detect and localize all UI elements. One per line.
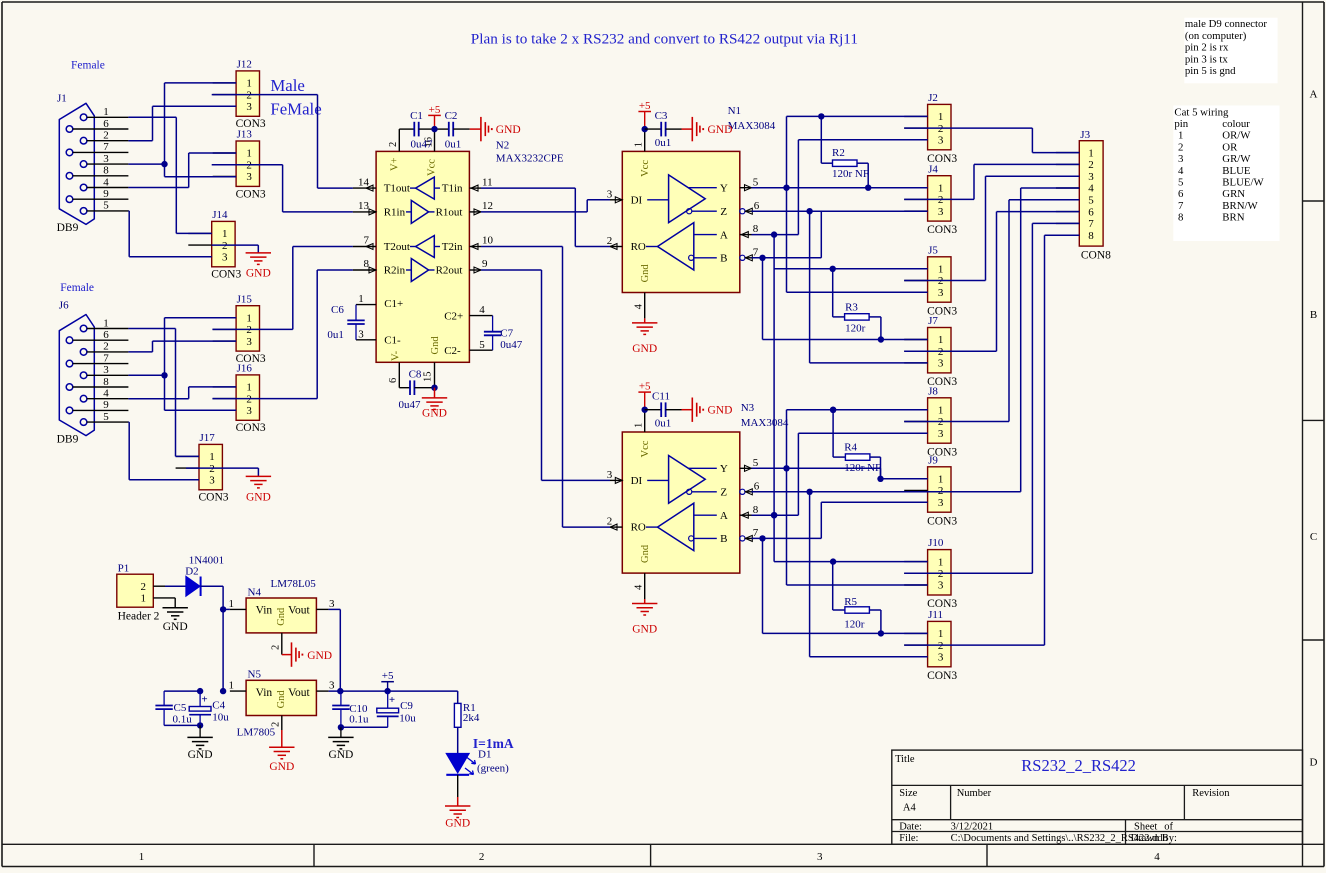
svg-text:10u: 10u — [399, 712, 416, 724]
svg-text:1: 1 — [246, 312, 252, 324]
svg-text:14: 14 — [358, 176, 370, 188]
svg-text:3: 3 — [938, 135, 944, 147]
svg-text:N1: N1 — [728, 105, 741, 117]
svg-text:Vout: Vout — [288, 604, 310, 616]
connector J12 CON3 — [213, 59, 266, 131]
wire J1.5 to J14.3 — [128, 211, 211, 257]
svg-text:J6: J6 — [59, 300, 69, 312]
IC N5 LM7805 — [237, 669, 317, 739]
svg-text:C8: C8 — [409, 369, 422, 381]
svg-text:1: 1 — [246, 78, 252, 90]
svg-text:C7: C7 — [500, 328, 513, 340]
svg-text:Gnd: Gnd — [640, 544, 651, 563]
capacitor C11 — [645, 391, 682, 430]
svg-text:J7: J7 — [928, 315, 938, 327]
svg-text:GND: GND — [496, 124, 521, 136]
svg-text:OR: OR — [1222, 141, 1238, 153]
svg-text:1: 1 — [938, 111, 944, 123]
capacitor C7 — [469, 304, 522, 351]
svg-text:3: 3 — [938, 287, 944, 299]
N4 pin 2 ground — [271, 633, 333, 667]
svg-text:CON3: CON3 — [199, 492, 229, 504]
LED D1 — [446, 749, 509, 775]
connector J14 CON3 — [188, 209, 241, 281]
capacitor C8 — [399, 369, 435, 411]
N5 pin 1 — [229, 680, 247, 692]
svg-text:3: 3 — [817, 851, 823, 863]
svg-text:3: 3 — [607, 469, 613, 481]
svg-text:R2in: R2in — [384, 265, 406, 277]
svg-text:of: of — [1164, 822, 1173, 833]
label MAX3084 (N1) — [728, 120, 776, 132]
resistor R2 — [818, 113, 869, 187]
svg-text:3: 3 — [246, 171, 252, 183]
svg-text:+: + — [201, 694, 207, 706]
svg-text:9: 9 — [482, 258, 488, 270]
N4 pin 1 — [223, 598, 246, 610]
wire net B3 to J11.1 — [763, 538, 928, 633]
svg-text:Plan is to take 2 x RS232 and: Plan is to take 2 x RS232 and convert to… — [471, 31, 858, 48]
svg-text:3: 3 — [938, 580, 944, 592]
svg-text:5: 5 — [479, 339, 485, 351]
wire J6.1 to J17.1 — [128, 329, 199, 457]
svg-text:D2: D2 — [185, 566, 198, 578]
svg-text:9: 9 — [103, 188, 109, 200]
wire J2.2 to J3.1 — [904, 128, 1079, 153]
svg-text:3: 3 — [1088, 171, 1094, 183]
svg-text:8: 8 — [753, 504, 759, 516]
svg-text:GND: GND — [708, 124, 733, 136]
svg-text:2: 2 — [271, 645, 282, 650]
N3 pins — [607, 457, 760, 542]
svg-text:CON3: CON3 — [211, 269, 241, 281]
wire net B1 loop to Z1 line — [820, 211, 822, 258]
svg-text:T2in: T2in — [442, 241, 463, 253]
svg-text:7: 7 — [103, 141, 109, 153]
svg-text:N2: N2 — [496, 140, 509, 152]
wire J11.2 to J3.8 — [904, 235, 1079, 645]
N3 Gnd pin 4 — [634, 573, 645, 599]
svg-text:GND: GND — [632, 343, 657, 355]
N2 buffer R1 — [406, 200, 435, 223]
wire J8.2 to J3.5 — [904, 200, 1079, 422]
svg-text:MAX3084: MAX3084 — [728, 120, 776, 132]
svg-text:DI: DI — [631, 194, 643, 206]
svg-text:Revision: Revision — [1192, 788, 1230, 799]
svg-text:3: 3 — [329, 598, 335, 610]
svg-text:1: 1 — [229, 598, 235, 610]
wire net A1 to J2.3 — [798, 140, 927, 235]
capacitor C3 — [645, 110, 682, 149]
ground below N1 — [632, 318, 657, 355]
wire net B1 to J7.1 — [763, 258, 928, 343]
svg-text:GND: GND — [708, 405, 733, 417]
N2 right pins 11 12 10 9 — [469, 176, 493, 273]
label N1 — [728, 105, 741, 117]
svg-text:J11: J11 — [928, 609, 943, 621]
N5 pin 3 wire — [316, 680, 457, 695]
svg-text:C2-: C2- — [444, 345, 461, 357]
svg-text:GND: GND — [632, 624, 657, 636]
note male D9 connector — [1184, 18, 1277, 84]
svg-text:2: 2 — [1178, 141, 1183, 153]
svg-text:(on computer): (on computer) — [1185, 30, 1247, 42]
capacitor C10 — [332, 691, 388, 730]
svg-text:T1out: T1out — [384, 183, 410, 195]
svg-text:J9: J9 — [928, 454, 938, 466]
svg-text:0u47: 0u47 — [399, 399, 422, 411]
svg-text:A: A — [720, 229, 728, 241]
svg-text:Date:: Date: — [899, 822, 922, 833]
wire J1.4 to J13.1 — [128, 153, 236, 188]
svg-text:4: 4 — [103, 176, 109, 188]
note Cat 5 wiring table — [1173, 106, 1279, 242]
capacitor C2 — [435, 110, 470, 151]
svg-text:T1in: T1in — [442, 183, 463, 195]
svg-text:D1: D1 — [478, 749, 491, 761]
wire N1.Z to J4.3 — [752, 208, 928, 214]
svg-text:8: 8 — [1088, 230, 1094, 242]
svg-text:DB9: DB9 — [57, 434, 79, 446]
svg-text:V+: V+ — [390, 157, 401, 171]
svg-text:pin 2 is rx: pin 2 is rx — [1185, 42, 1229, 54]
title block texts — [895, 754, 1230, 844]
svg-text:3/12/2021: 3/12/2021 — [951, 822, 994, 833]
N4 pin 3 wire to +5 rail — [316, 598, 340, 691]
svg-text:R2: R2 — [832, 147, 845, 159]
svg-text:Gnd: Gnd — [276, 607, 287, 626]
wire J1.1 to J14.1 — [128, 117, 211, 233]
N1 pins — [607, 176, 760, 260]
N3 pin names — [631, 463, 728, 545]
ground below N3 — [632, 599, 657, 636]
svg-text:3: 3 — [246, 336, 252, 348]
capacitor C1 — [399, 110, 434, 151]
wire N3.Y line to J9.1 — [752, 465, 928, 479]
connector J13 CON3 — [213, 129, 266, 201]
svg-text:C4: C4 — [212, 699, 225, 711]
ground after C3 — [682, 117, 733, 141]
svg-text:3: 3 — [103, 364, 109, 376]
N1 power pin names — [640, 160, 651, 283]
wire N2 R2out to N3 DI — [481, 270, 610, 480]
svg-text:1: 1 — [938, 474, 944, 486]
svg-text:J1: J1 — [57, 93, 67, 105]
ground below C10 — [328, 727, 353, 761]
N2 bottom pins 6 and 15 — [388, 362, 435, 387]
connector J3 CON8 — [1056, 129, 1111, 261]
svg-text:1: 1 — [938, 334, 944, 346]
connector J15 CON3 — [213, 293, 266, 365]
svg-text:4: 4 — [1088, 183, 1094, 195]
svg-text:3: 3 — [938, 428, 944, 440]
svg-text:3: 3 — [938, 358, 944, 370]
svg-text:2: 2 — [479, 851, 485, 863]
svg-text:2: 2 — [607, 516, 613, 528]
svg-text:0u47: 0u47 — [411, 139, 434, 151]
svg-text:Gnd: Gnd — [640, 264, 651, 283]
connector J4 CON3 — [904, 163, 957, 236]
svg-text:Z: Z — [720, 487, 727, 499]
capacitor C4 — [189, 688, 229, 729]
connector J2 CON3 — [904, 92, 957, 165]
svg-text:1: 1 — [938, 405, 944, 417]
label J1 — [57, 93, 67, 105]
svg-text:C1+: C1+ — [384, 298, 403, 310]
svg-text:4: 4 — [103, 388, 109, 400]
connector J1 DB9 female — [59, 103, 128, 224]
N2 pin names — [384, 183, 464, 357]
svg-text:R3: R3 — [845, 301, 858, 313]
svg-text:5: 5 — [753, 457, 759, 469]
svg-text:4: 4 — [634, 584, 645, 590]
wire N1.Y to J4.1 — [752, 185, 928, 191]
svg-text:6: 6 — [754, 200, 760, 212]
ground at J17 — [246, 476, 271, 503]
svg-text:N3: N3 — [741, 402, 755, 414]
svg-text:Female: Female — [60, 282, 94, 294]
N2 buffer T1 — [410, 177, 440, 199]
diode D2 1N4001 — [165, 554, 224, 596]
svg-text:CON3: CON3 — [927, 515, 957, 527]
svg-text:Vcc: Vcc — [640, 440, 651, 457]
wire net B3 to J9.3 — [821, 502, 927, 538]
svg-text:R5: R5 — [844, 596, 857, 608]
svg-text:colour: colour — [1222, 118, 1250, 130]
svg-text:10: 10 — [482, 235, 494, 247]
N2 power pin names V+ Vcc V- Gnd — [390, 157, 441, 361]
capacitor C5 — [155, 691, 200, 725]
connector P1 Header 2 — [117, 562, 175, 622]
svg-text:3: 3 — [607, 188, 613, 200]
label MAX3084 (N3) — [741, 417, 789, 429]
wire J14.2 to ground — [212, 245, 259, 253]
svg-text:15: 15 — [423, 372, 434, 383]
wire net A3 to J8.3 — [798, 433, 927, 515]
svg-text:+: + — [389, 694, 395, 706]
svg-text:C11: C11 — [652, 391, 670, 403]
svg-text:1: 1 — [938, 182, 944, 194]
svg-text:120r: 120r — [845, 322, 866, 334]
resistor R1 — [454, 691, 480, 753]
connector J7 CON3 — [904, 315, 957, 388]
power +5 at N1 — [638, 100, 651, 132]
svg-text:120r: 120r — [844, 619, 865, 631]
wire J5.2 to J3.3 — [904, 176, 1079, 280]
svg-text:T2out: T2out — [384, 241, 410, 253]
ground below D1 — [445, 775, 470, 830]
svg-text:1: 1 — [634, 142, 645, 147]
svg-text:RO: RO — [631, 241, 646, 253]
svg-text:6: 6 — [103, 118, 109, 130]
wire N2 T2in to N3 RO — [481, 247, 610, 528]
svg-text:R1out: R1out — [436, 206, 463, 218]
svg-text:1: 1 — [938, 628, 944, 640]
svg-text:1: 1 — [246, 148, 252, 160]
svg-text:Vcc: Vcc — [640, 160, 651, 177]
svg-text:RS232_2_RS422: RS232_2_RS422 — [1021, 756, 1136, 775]
svg-text:B: B — [720, 253, 727, 265]
svg-text:DI: DI — [631, 475, 643, 487]
svg-text:0.1u: 0.1u — [349, 714, 369, 726]
svg-text:MAX3084: MAX3084 — [741, 417, 789, 429]
svg-text:7: 7 — [364, 235, 370, 247]
connector J9 CON3 — [904, 454, 957, 527]
svg-text:1: 1 — [938, 264, 944, 276]
svg-text:FeMale: FeMale — [270, 100, 321, 119]
wire D2 to regulators — [201, 586, 227, 694]
svg-text:A: A — [720, 510, 728, 522]
wire N3.B line — [752, 535, 822, 541]
svg-text:12: 12 — [482, 200, 493, 212]
svg-text:+5: +5 — [639, 100, 651, 112]
svg-text:Vin: Vin — [256, 604, 273, 616]
connector J16 CON3 — [213, 363, 266, 435]
svg-text:CON3: CON3 — [927, 670, 957, 682]
svg-text:Sheet: Sheet — [1134, 822, 1157, 833]
svg-text:pin: pin — [1174, 118, 1188, 130]
svg-text:J8: J8 — [928, 385, 938, 397]
svg-text:Drawn By:: Drawn By: — [1131, 833, 1177, 844]
svg-text:4: 4 — [1178, 165, 1184, 177]
svg-text:4: 4 — [479, 304, 485, 316]
svg-text:10u: 10u — [212, 712, 229, 724]
svg-text:B: B — [1310, 309, 1317, 321]
svg-text:LM78L05: LM78L05 — [271, 578, 317, 590]
svg-text:1: 1 — [1088, 147, 1094, 159]
svg-text:1: 1 — [139, 851, 145, 863]
svg-text:N5: N5 — [248, 669, 262, 681]
svg-text:1: 1 — [229, 680, 235, 692]
title block — [892, 750, 1303, 844]
svg-text:C2+: C2+ — [444, 311, 463, 323]
IC N2 MAX3232CPE body — [376, 151, 469, 362]
svg-text:Y: Y — [720, 183, 728, 195]
svg-text:5: 5 — [103, 411, 109, 423]
wire J1.3 to J12.1 and J13.3 — [128, 83, 236, 177]
svg-text:J15: J15 — [237, 293, 253, 305]
svg-text:1: 1 — [246, 382, 252, 394]
label N2 — [496, 140, 509, 152]
power +5 at N3 — [638, 381, 651, 413]
resistor R5 — [833, 562, 884, 637]
svg-text:J4: J4 — [928, 163, 938, 175]
label MAX3232CPE — [496, 152, 564, 164]
svg-text:C3: C3 — [655, 110, 668, 122]
svg-text:11: 11 — [482, 176, 493, 188]
wire net Y3 vertical J8.1 to J10.3 — [787, 407, 928, 585]
svg-text:Cat 5 wiring: Cat 5 wiring — [1174, 106, 1229, 118]
connector J17 CON3 — [176, 432, 229, 504]
svg-text:P1: P1 — [118, 562, 130, 574]
svg-text:J5: J5 — [928, 244, 938, 256]
svg-text:120r NF: 120r NF — [832, 168, 869, 180]
svg-text:B: B — [720, 533, 727, 545]
svg-text:8: 8 — [103, 165, 109, 177]
svg-text:CON3: CON3 — [236, 422, 266, 434]
N2 left pins 14 13 7 8 — [353, 176, 376, 273]
svg-text:1: 1 — [634, 423, 645, 428]
svg-text:7: 7 — [1088, 218, 1094, 230]
svg-text:LM7805: LM7805 — [237, 726, 276, 738]
wire J5.1 line — [774, 266, 928, 272]
svg-text:C5: C5 — [174, 702, 187, 714]
svg-text:(green): (green) — [477, 762, 509, 774]
svg-text:1: 1 — [103, 317, 109, 329]
svg-text:Header 2: Header 2 — [118, 611, 160, 623]
wire J1.2 to J12.3 — [128, 106, 236, 140]
wire J12.2 to N2 pin 14 — [212, 95, 353, 189]
svg-text:Number: Number — [957, 788, 992, 799]
svg-text:Y: Y — [720, 463, 728, 475]
svg-text:CON3: CON3 — [927, 224, 957, 236]
wire J6.2 to J15.3 — [128, 341, 236, 352]
svg-text:GND: GND — [445, 818, 470, 830]
svg-text:Vout: Vout — [288, 687, 310, 699]
wire J17.2 to ground — [186, 468, 258, 476]
svg-text:GND: GND — [307, 650, 332, 662]
svg-text:7: 7 — [753, 246, 759, 258]
svg-text:J13: J13 — [237, 129, 253, 141]
svg-text:GND: GND — [269, 761, 294, 773]
label DB9 (J1) — [57, 222, 79, 234]
svg-text:BRN: BRN — [1222, 212, 1244, 224]
wire net Y1 vertical to J2.1 and J5.3 — [787, 116, 928, 292]
svg-text:+5: +5 — [382, 670, 394, 682]
svg-text:GND: GND — [246, 492, 271, 504]
svg-text:3: 3 — [329, 680, 335, 692]
ground after C2 — [470, 117, 521, 141]
svg-text:GND: GND — [246, 268, 271, 280]
svg-text:CON8: CON8 — [1081, 250, 1111, 262]
N5 pin 2 ground — [269, 716, 294, 774]
svg-text:2k4: 2k4 — [463, 712, 480, 724]
label N3 — [741, 402, 755, 414]
svg-text:3: 3 — [1178, 153, 1183, 165]
wire J7.2 to J3.6 — [904, 212, 1079, 352]
power +5 at C9 — [381, 670, 394, 691]
svg-text:1: 1 — [222, 228, 228, 240]
svg-text:GND: GND — [328, 749, 353, 761]
svg-text:DB9: DB9 — [57, 222, 79, 234]
svg-text:pin 5 is gnd: pin 5 is gnd — [1185, 65, 1236, 77]
svg-text:3: 3 — [938, 206, 944, 218]
svg-text:Male: Male — [270, 76, 304, 95]
svg-text:J16: J16 — [237, 363, 253, 375]
wire net A vertical to J10.1 — [771, 235, 928, 565]
svg-text:Female: Female — [71, 60, 105, 72]
svg-text:+5: +5 — [429, 104, 441, 116]
wire N2 T1in to N1 RO — [481, 188, 610, 246]
svg-text:3: 3 — [246, 405, 252, 417]
svg-text:3: 3 — [938, 497, 944, 509]
label J6 — [59, 300, 69, 312]
svg-text:1N4001: 1N4001 — [189, 554, 224, 566]
svg-text:BLUE/W: BLUE/W — [1222, 177, 1264, 189]
wire J16.2 to N2 pin 8 — [212, 270, 353, 399]
svg-text:+5: +5 — [639, 381, 651, 393]
N2 buffer T2 — [410, 236, 440, 258]
label Female (J6) — [60, 282, 94, 294]
svg-text:3: 3 — [246, 101, 252, 113]
svg-text:GND: GND — [163, 621, 188, 633]
connector J5 CON3 — [904, 244, 957, 317]
IC N4 LM78L05 — [246, 578, 316, 633]
svg-text:C1: C1 — [410, 110, 423, 122]
svg-text:N4: N4 — [248, 586, 262, 598]
svg-text:J2: J2 — [928, 92, 938, 104]
zone labels — [139, 89, 1318, 863]
